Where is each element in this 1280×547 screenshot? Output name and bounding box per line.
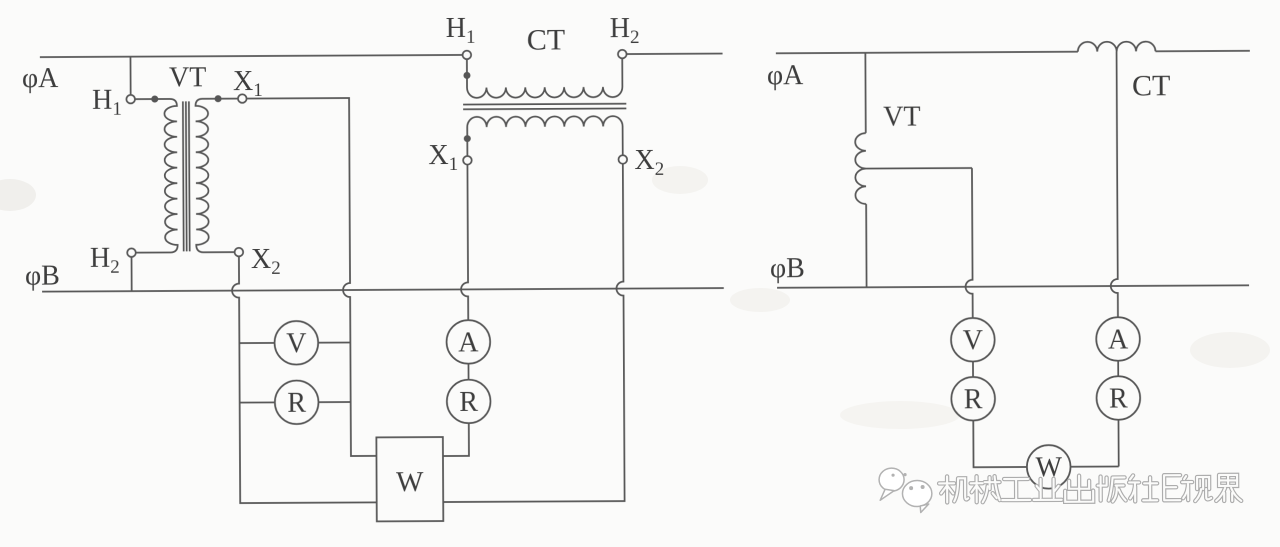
- svg-text:A: A: [458, 327, 479, 358]
- wire V rail crossing phiB with hop: [965, 168, 973, 318]
- svg-text:CT: CT: [1132, 69, 1171, 102]
- wire voltmeter to mid rail: [318, 342, 350, 344]
- svg-text:R: R: [964, 384, 983, 415]
- watermark text: simplified strokes of Chinese publisher watermark: [939, 475, 1241, 503]
- wattmeter W1 box: [376, 437, 443, 521]
- wire VT X1 to right rail down to wattmeter: [247, 98, 377, 457]
- wire VT H2 to phiB: [131, 257, 133, 291]
- svg-text:A: A: [1108, 324, 1129, 355]
- svg-text:CT: CT: [527, 23, 566, 56]
- wire left rail to voltmeter: [239, 342, 274, 344]
- svg-text:φA: φA: [22, 63, 59, 94]
- svg-text:R: R: [459, 387, 478, 418]
- wire phiB bus right diagram: [777, 285, 1249, 287]
- polarity dot CT primary: [463, 72, 470, 79]
- wire left rail to resistor R1: [240, 401, 275, 403]
- wire phiA bus right segment (after CT H2): [627, 53, 723, 56]
- ammeter A1: [446, 320, 490, 364]
- wire phiB bus (left diagram): [42, 288, 724, 292]
- wire VT drop from phiA right: [864, 53, 866, 133]
- watermark logo: chat bubbles: [879, 468, 932, 513]
- VT secondary winding: [195, 99, 238, 253]
- terminal H1 of VT: [126, 95, 135, 104]
- wire resistor R2 to wattmeter right side: [443, 423, 469, 456]
- svg-text:VT: VT: [169, 62, 206, 93]
- polarity dot CT secondary: [464, 135, 471, 142]
- wire VT H1 drop from phiA: [129, 57, 131, 95]
- svg-text:φB: φB: [25, 261, 60, 292]
- wire R4 down to wattmeter wire: [1117, 419, 1119, 466]
- terminal X1 of CT: [463, 156, 472, 165]
- polarity dot VT secondary: [215, 95, 222, 102]
- svg-text:φB: φB: [770, 253, 805, 284]
- terminal X2 of CT: [618, 155, 627, 164]
- wire phiA after CT coil: [1155, 50, 1249, 52]
- wire VT coil bottom to phiB: [865, 204, 867, 287]
- terminal X2 of VT: [235, 248, 244, 257]
- wire W2 to right chain: [1070, 465, 1118, 467]
- svg-text:R: R: [287, 388, 306, 419]
- resistor R2: [447, 379, 491, 423]
- resistor box R1: [275, 380, 319, 424]
- resistor R3: [951, 377, 995, 421]
- wire R3 down to wattmeter W2: [973, 420, 1027, 467]
- terminal H1 of CT: [463, 51, 472, 60]
- svg-text:R: R: [1109, 383, 1128, 414]
- CT core: [463, 104, 626, 110]
- svg-text:VT: VT: [883, 102, 920, 133]
- VT primary winding: [135, 99, 178, 253]
- wire A2 to R4: [1117, 360, 1119, 376]
- VT core: [183, 101, 190, 251]
- wire phiA bus left segment: [40, 55, 462, 57]
- voltmeter V1: [274, 321, 318, 365]
- svg-text:V: V: [286, 328, 306, 359]
- wire V2 to R3: [972, 361, 974, 377]
- terminal H2 of VT: [127, 248, 136, 257]
- terminal X1 of VT: [238, 94, 247, 103]
- wire phiA bus right diagram: [776, 52, 1078, 54]
- CT secondary winding: [467, 116, 623, 156]
- wattmeter W2: [1027, 445, 1071, 489]
- wire resistor R1 to mid rail: [318, 401, 350, 403]
- svg-text:W: W: [396, 466, 424, 498]
- wire VT tap to V rail: [866, 167, 972, 170]
- inductor CT coil on phiA: [1078, 42, 1156, 52]
- wire VT X2 down crossing phiB with hop: [232, 256, 377, 503]
- wire CT X1 down crossing phiB with hop to ammeter: [460, 165, 468, 321]
- ammeter A2: [1096, 317, 1140, 361]
- inductor VT coil right: [855, 133, 866, 204]
- wire CT X2 down crossing phiB with hop to wattmeter: [441, 164, 624, 502]
- polarity dot VT primary: [151, 96, 158, 103]
- voltmeter V2: [951, 318, 995, 362]
- CT primary winding: [467, 58, 623, 98]
- scan noise blobs: [0, 166, 1270, 429]
- resistor R4: [1096, 376, 1140, 420]
- wire CT rail crossing phiB with hop: [1110, 52, 1118, 318]
- svg-text:φA: φA: [767, 60, 804, 91]
- wire ammeter to resistor R2: [467, 363, 469, 379]
- svg-text:V: V: [963, 325, 983, 356]
- terminal H2 of CT: [618, 50, 627, 59]
